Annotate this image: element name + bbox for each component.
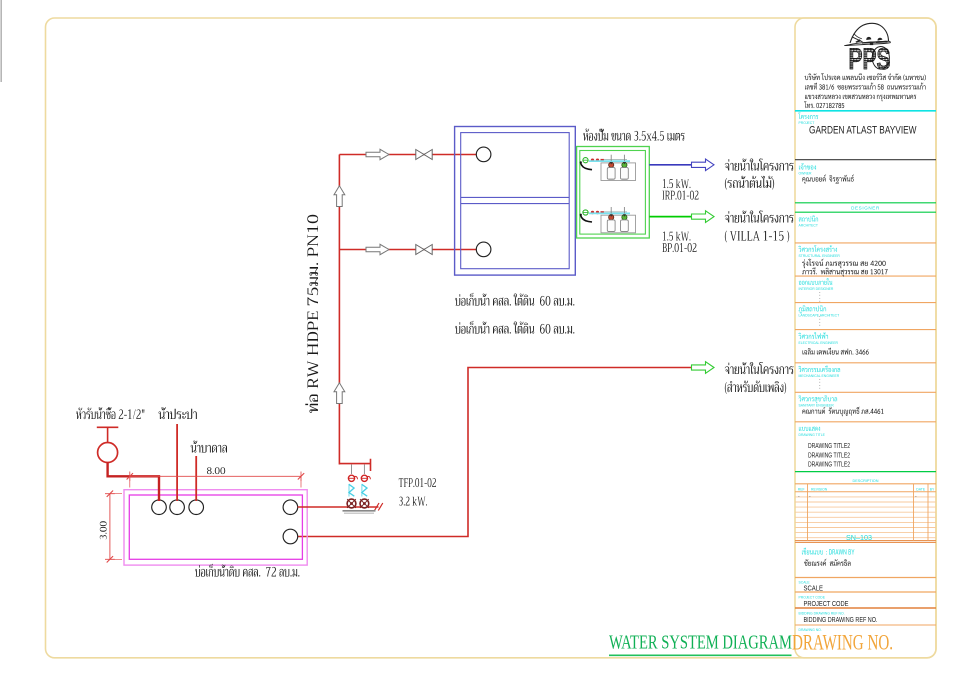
svg-text:DESIGNER: DESIGNER bbox=[851, 206, 880, 211]
svg-text:DRAWING TITLE2: DRAWING TITLE2 bbox=[808, 462, 850, 469]
field: electrical engineer bbox=[798, 332, 828, 339]
field: interior designer bbox=[799, 278, 833, 285]
node: city water inlet bbox=[152, 500, 167, 515]
wire: fire line from raw water tank bbox=[298, 368, 691, 537]
tank inlet node (lower) bbox=[476, 242, 491, 257]
field: drawing title bbox=[799, 427, 820, 431]
rule: mechanical row (orange) bbox=[795, 362, 936, 364]
svg-text:DATE: DATE bbox=[916, 487, 926, 491]
svg-text:DRAWING TITLE2: DRAWING TITLE2 bbox=[808, 452, 850, 459]
field: structural engineer bbox=[798, 245, 837, 252]
svg-text:STRUCTURAL ENGINEER: STRUCTURAL ENGINEER bbox=[799, 254, 841, 258]
address line 3 bbox=[805, 94, 916, 101]
label: for fire fighting bbox=[725, 381, 786, 394]
flow arrow on lower branch bbox=[366, 244, 389, 254]
rule: above drawing no row bbox=[795, 624, 936, 626]
printer edge artifact bbox=[0, 0, 2, 82]
dim text 8.00 bbox=[207, 467, 225, 474]
wire: main RW riser pipe bbox=[338, 155, 340, 465]
field: sanitary engineer bbox=[798, 395, 837, 403]
rule: sanitary row (orange) bbox=[795, 391, 936, 393]
rule: table header bottom bbox=[795, 491, 936, 493]
svg-text:INTERIOR DESIGNER: INTERIOR DESIGNER bbox=[799, 287, 834, 291]
tank inner wall bbox=[461, 133, 570, 269]
label: water buy connector bbox=[76, 407, 144, 419]
structural engineer 2 bbox=[802, 267, 888, 276]
rule: designed band bottom (green) bbox=[795, 211, 936, 213]
rule: description band (green) bbox=[795, 471, 936, 473]
dimension 3.00 line bbox=[105, 491, 122, 563]
tank: raw water tank 72 cu.m (outer wall) bbox=[124, 490, 307, 565]
tank: underground water tank 60 cu.m (outer wall) bbox=[455, 127, 576, 276]
svg-text:ELECTRICAL ENGINEER: ELECTRICAL ENGINEER bbox=[799, 341, 839, 345]
field: owner bbox=[799, 163, 816, 170]
wire: well water drop bbox=[195, 456, 197, 501]
rule: interior row (orange) bbox=[795, 275, 936, 277]
field: architect bbox=[799, 215, 818, 221]
svg-text:DRAWING TITLE2: DRAWING TITLE2 bbox=[808, 443, 850, 450]
arrow: to project (villa) bbox=[692, 211, 715, 223]
pump base pad bbox=[343, 510, 376, 512]
label: pump tag TFP.01-02 bbox=[399, 478, 436, 487]
wire: tap water drop bbox=[176, 424, 178, 501]
label: supply to project (irrigation) bbox=[725, 159, 794, 171]
field: drawn by bbox=[802, 548, 854, 555]
field: mechanical engineer bbox=[798, 366, 840, 373]
label: villa 1-15 bbox=[725, 231, 789, 243]
rule: structural row (orange) bbox=[795, 242, 936, 244]
dimension 8.00 line bbox=[127, 472, 305, 488]
svg-text:REVISION: REVISION bbox=[811, 487, 828, 491]
svg-text:SANITARY ENGINEER: SANITARY ENGINEER bbox=[799, 403, 835, 407]
sanitary engineer name bbox=[802, 407, 883, 416]
svg-text:BY: BY bbox=[930, 487, 935, 491]
pump skid BP.01-02 (villa booster pumps) bbox=[580, 207, 636, 233]
svg-text:SN–103: SN–103 bbox=[846, 533, 872, 542]
drawn by name bbox=[804, 559, 850, 566]
rule: below address (cyan) bbox=[795, 110, 936, 112]
svg-text:PROJECT CODE: PROJECT CODE bbox=[804, 599, 849, 608]
pump TFP-01 bbox=[347, 475, 357, 508]
raw water tank inner wall bbox=[129, 495, 302, 559]
label: pump room size bbox=[583, 129, 685, 141]
svg-text:ARCHITECT: ARCHITECT bbox=[799, 224, 818, 228]
wire: pump discharge drops bbox=[352, 465, 365, 475]
wire: villa discharge (green) bbox=[649, 216, 692, 218]
rule: designed band top (green) bbox=[795, 202, 936, 204]
electrical engineer name bbox=[803, 348, 869, 355]
label: pump power IRP bbox=[663, 179, 690, 188]
label: pump tag IRP.01-02 bbox=[662, 190, 698, 199]
node: transfer pump suction outlet bbox=[283, 500, 298, 515]
phone bbox=[804, 101, 844, 108]
rule: above scale row bbox=[795, 577, 936, 579]
flow arrow up on riser (lower) bbox=[334, 383, 345, 404]
svg-text::: : bbox=[819, 385, 821, 391]
wire: supply into raw tank (thick) bbox=[108, 463, 159, 502]
node: well water inlet bbox=[189, 500, 204, 515]
field: landscape architect bbox=[799, 305, 826, 313]
pump skid IRP.01-02 (irrigation pumps) bbox=[580, 155, 636, 181]
symbol: 2-1/2in water supply connector bbox=[97, 427, 119, 462]
company name bbox=[805, 73, 926, 80]
wire: irrigation discharge (blue) bbox=[649, 164, 692, 166]
rule: above bidding row (strong) bbox=[795, 607, 936, 609]
wire: TFP suction pipe from tank bbox=[298, 506, 379, 508]
label: well water bbox=[191, 441, 227, 453]
rule: below project (black) bbox=[795, 159, 936, 161]
rule: above project code row bbox=[795, 591, 936, 593]
svg-text::: : bbox=[819, 322, 821, 328]
pump TFP-02 bbox=[360, 475, 370, 508]
svg-text:SCALE: SCALE bbox=[804, 583, 824, 592]
flow arrow up on riser (upper) bbox=[334, 186, 345, 207]
flow arrow on upper branch bbox=[366, 149, 389, 159]
revision table column lines bbox=[808, 484, 929, 541]
arrow: to project (irrigation) bbox=[692, 159, 715, 171]
owner name bbox=[802, 175, 854, 184]
label: raw water tank 72 cu.m bbox=[195, 564, 299, 577]
valve V1 on upper branch bbox=[416, 150, 432, 160]
svg-text:REF: REF bbox=[798, 487, 805, 491]
tank inlet node (upper) bbox=[476, 147, 491, 162]
label: tree watering truck bbox=[725, 176, 774, 190]
pump room wall (outer) bbox=[577, 147, 650, 239]
svg-text:BIDDING DRAWING REF NO.: BIDDING DRAWING REF NO. bbox=[804, 615, 878, 624]
wire: upper branch to tank bbox=[339, 154, 477, 156]
svg-text:GARDEN ATLAST BAYVIEW: GARDEN ATLAST BAYVIEW bbox=[809, 125, 917, 137]
title block border bbox=[795, 18, 936, 658]
label: pump power BP bbox=[663, 231, 690, 240]
dim text 3.00 bbox=[100, 521, 107, 539]
label: pump tag BP.01-02 bbox=[662, 243, 696, 252]
svg-text:MECHANICAL ENGINEER: MECHANICAL ENGINEER bbox=[799, 374, 840, 378]
svg-text:DESCRIPTION: DESCRIPTION bbox=[853, 479, 879, 483]
label: supply to project (fire) bbox=[725, 362, 794, 374]
sheet title underline bbox=[609, 654, 792, 656]
rule: table top (orange) bbox=[795, 483, 936, 485]
svg-text:OWNER: OWNER bbox=[799, 172, 813, 176]
rule: drawing title row (orange) bbox=[795, 421, 936, 423]
label: tap water bbox=[159, 407, 197, 419]
arrow: to project (fire fighting) bbox=[692, 362, 715, 374]
logo: PPS safety helmet bbox=[844, 23, 890, 45]
tank divider wall bbox=[461, 197, 570, 203]
revision table empty rows bbox=[795, 497, 936, 538]
svg-text:WATER SYSTEM DIAGRAM: WATER SYSTEM DIAGRAM bbox=[609, 633, 792, 654]
label: pump power TFP bbox=[399, 497, 427, 506]
label: tank 60 cu.m (2) bbox=[455, 321, 574, 334]
field: project bbox=[798, 112, 818, 119]
node: fire line outlet bbox=[283, 529, 298, 544]
rule: landscape row (orange) bbox=[795, 302, 936, 304]
address line 2 bbox=[805, 83, 926, 90]
label: riser pipe spec bbox=[305, 215, 318, 413]
rule: electrical row (orange) bbox=[795, 329, 936, 331]
symbol: suction end caps bbox=[375, 503, 383, 511]
node: tap water inlet bbox=[170, 500, 185, 515]
wire: TFP discharge header bbox=[339, 459, 370, 471]
wire: lower branch to tank bbox=[339, 249, 477, 251]
valve V2 on lower branch bbox=[416, 245, 432, 255]
svg-text:DRAWING TITLE: DRAWING TITLE bbox=[799, 433, 826, 437]
label: tank 60 cu.m (1) bbox=[455, 293, 574, 306]
structural engineer 1 bbox=[802, 259, 886, 268]
pump room wall (inner) bbox=[580, 151, 646, 235]
rule: table bottom double line bbox=[795, 540, 936, 542]
label: supply to project (villa) bbox=[725, 211, 794, 223]
svg-text:DRAWING NO.: DRAWING NO. bbox=[792, 630, 893, 655]
